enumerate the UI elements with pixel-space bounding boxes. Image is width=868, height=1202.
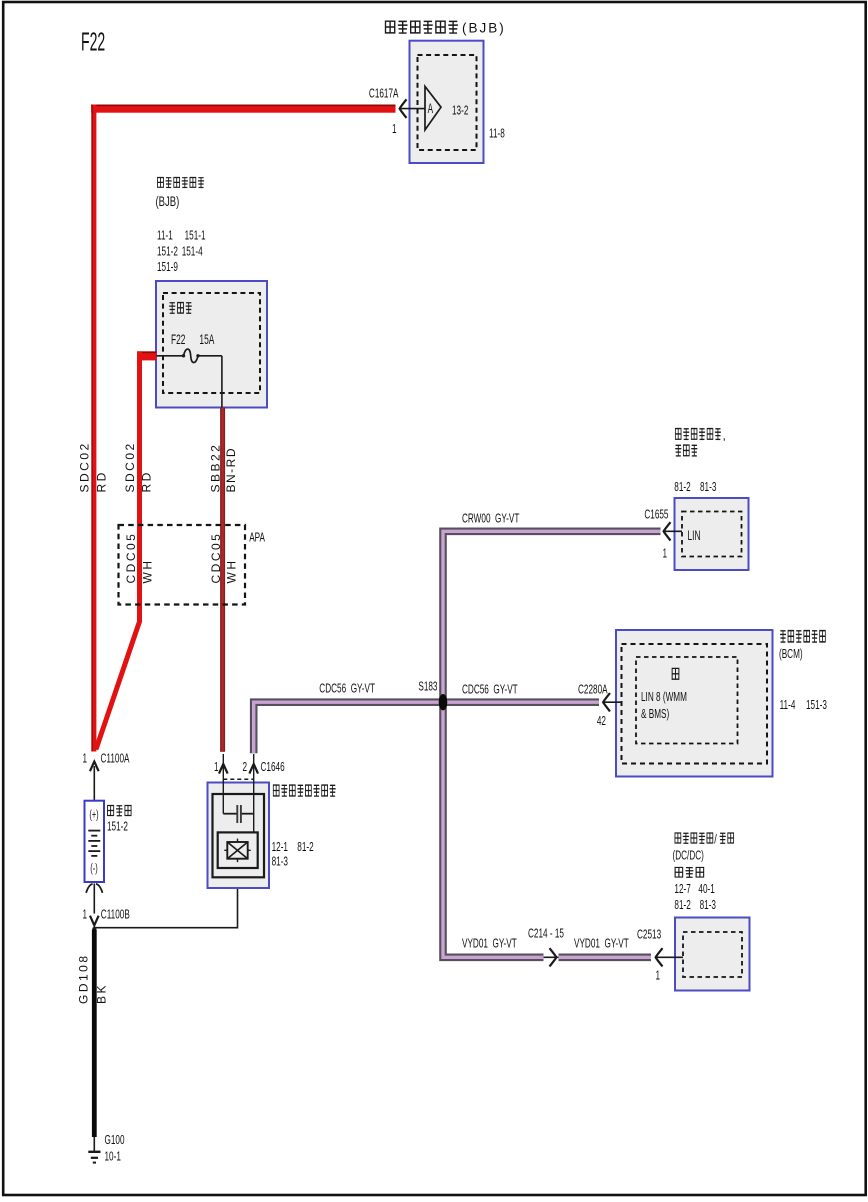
svg-text:12-1: 12-1 bbox=[272, 840, 288, 854]
svg-text:1: 1 bbox=[662, 547, 667, 561]
svg-text:10-1: 10-1 bbox=[105, 1150, 121, 1164]
svg-text:C2280A: C2280A bbox=[578, 683, 608, 697]
ground G100 10-1 bbox=[88, 1133, 124, 1164]
svg-text:81-3: 81-3 bbox=[700, 898, 716, 912]
svg-text:81-3: 81-3 bbox=[272, 855, 288, 869]
svg-text:CDC05: CDC05 bbox=[124, 532, 138, 584]
svg-text:CDC56 GY-VT: CDC56 GY-VT bbox=[319, 682, 375, 696]
svg-text:1: 1 bbox=[655, 969, 660, 983]
splice node S183 bbox=[418, 680, 447, 711]
svg-text:151-9: 151-9 bbox=[157, 260, 178, 274]
wire SDC02 RD : feed into fuse box (vertical run 2 + diagonal to C1100A) bbox=[96, 351, 157, 749]
connector C1100B pin 1 (battery -) bbox=[82, 908, 129, 932]
svg-text:SBB22: SBB22 bbox=[208, 443, 222, 493]
svg-text:A: A bbox=[428, 102, 434, 117]
svg-text:151-1: 151-1 bbox=[185, 229, 206, 243]
in-line connector C214 - 15 bbox=[528, 927, 564, 967]
module DC/DC converter 低电压直流/直流 换流器 bbox=[673, 833, 750, 991]
svg-text:CDC56 GY-VT: CDC56 GY-VT bbox=[462, 683, 518, 697]
svg-text:LIN 8 (WMM: LIN 8 (WMM bbox=[641, 690, 687, 704]
svg-text:12-7: 12-7 bbox=[674, 882, 690, 896]
svg-text:40-1: 40-1 bbox=[698, 882, 714, 896]
svg-text:F22: F22 bbox=[171, 333, 185, 348]
svg-text:81-2: 81-2 bbox=[674, 898, 690, 912]
svg-text:& BMS): & BMS) bbox=[641, 707, 669, 721]
battery clamp symbol bbox=[86, 884, 102, 893]
battery 蓄电池 151-2 bbox=[85, 801, 132, 914]
svg-text:42: 42 bbox=[597, 714, 606, 728]
svg-text:WH: WH bbox=[225, 559, 239, 584]
wire SBB22 BN-RD (fuse output) bbox=[220, 408, 225, 752]
connector box BJB top (蓄电池接线盒 BJB) bbox=[385, 21, 505, 164]
svg-text:RD: RD bbox=[94, 470, 108, 492]
wire SDC02 RD : vertical run 1 (to battery C1100A) bbox=[91, 105, 96, 752]
in-line circuit triangle A 13-2 bbox=[425, 86, 441, 129]
svg-text:C1617A: C1617A bbox=[369, 87, 399, 101]
wire VYD01 GY-VT right segment (C214 to C2513) bbox=[559, 953, 652, 961]
svg-text:C1100A: C1100A bbox=[101, 752, 131, 766]
wire SDC02 RD : horizontal run to C1617A bbox=[91, 105, 395, 113]
svg-text:,: , bbox=[723, 429, 726, 443]
svg-text:APA: APA bbox=[249, 531, 265, 545]
svg-text:13-2: 13-2 bbox=[452, 104, 468, 118]
svg-text:(BCM): (BCM) bbox=[779, 647, 803, 661]
svg-text:81-2: 81-2 bbox=[674, 480, 690, 494]
svg-text:11-1: 11-1 bbox=[157, 229, 173, 243]
svg-text:1: 1 bbox=[82, 752, 87, 766]
svg-text:C214 - 15: C214 - 15 bbox=[528, 927, 564, 941]
fuse box 常电源 bbox=[156, 281, 267, 408]
svg-text:(BJB): (BJB) bbox=[156, 193, 180, 209]
take-out APA (CDC05 WH) dashed box bbox=[119, 525, 266, 605]
svg-text:S183: S183 bbox=[418, 680, 437, 694]
connector C1655 pin 1 bbox=[644, 508, 682, 561]
svg-text:(BJB): (BJB) bbox=[462, 21, 506, 36]
svg-text:VYD01 GY-VT: VYD01 GY-VT bbox=[574, 937, 629, 951]
capacitor (shunt) inside sensor bbox=[223, 813, 236, 815]
battery monitoring sensor 蓄电池监控传感器 bbox=[208, 754, 336, 888]
svg-text:1: 1 bbox=[392, 122, 397, 136]
svg-text:F22: F22 bbox=[81, 28, 105, 57]
svg-text:GD108: GD108 bbox=[76, 953, 90, 1004]
label 微 (micro) bbox=[672, 668, 679, 679]
module BCM 车身控制模块 bbox=[616, 630, 827, 777]
svg-text:CDC05: CDC05 bbox=[209, 532, 223, 584]
svg-text:81-2: 81-2 bbox=[297, 840, 313, 854]
connector C1646 pins 1,2 bbox=[214, 760, 285, 779]
svg-text:C1100B: C1100B bbox=[101, 908, 130, 922]
connector C2513 pin 1 bbox=[637, 928, 683, 983]
sensor chip box with X bbox=[218, 832, 258, 868]
svg-text:1: 1 bbox=[82, 908, 87, 922]
wire (sensor ground branch) bbox=[94, 868, 237, 928]
wire CDC56 GY-VT left (C1646 pin2 to S183) bbox=[254, 702, 443, 753]
svg-text:BK: BK bbox=[95, 983, 109, 1004]
svg-text:11-8: 11-8 bbox=[489, 127, 505, 141]
svg-text:SDC02: SDC02 bbox=[123, 441, 137, 492]
svg-text:81-3: 81-3 bbox=[700, 480, 716, 494]
wire GD108 BK bbox=[92, 930, 97, 1138]
svg-text:C1655: C1655 bbox=[644, 508, 668, 522]
svg-text:1: 1 bbox=[214, 760, 219, 774]
module windshield wiper motor (风挡雨刮电机, 驾驶员) bbox=[674, 429, 748, 571]
svg-text:VYD01 GY-VT: VYD01 GY-VT bbox=[462, 937, 517, 951]
svg-text:(-): (-) bbox=[90, 862, 97, 875]
svg-text:CRW00 GY-VT: CRW00 GY-VT bbox=[462, 512, 520, 526]
svg-text:151-3: 151-3 bbox=[806, 698, 827, 712]
svg-text:LIN: LIN bbox=[688, 529, 701, 544]
svg-text:SDC02: SDC02 bbox=[77, 441, 91, 492]
svg-text:(DC/DC): (DC/DC) bbox=[673, 849, 704, 863]
svg-text:15A: 15A bbox=[199, 333, 214, 348]
svg-text:C1646: C1646 bbox=[261, 760, 285, 774]
sensor pin wires bbox=[222, 754, 224, 814]
svg-text:RD: RD bbox=[140, 470, 154, 492]
svg-text:G100: G100 bbox=[105, 1133, 125, 1147]
svg-text:C2513: C2513 bbox=[637, 928, 661, 942]
wire CDC56 GY-VT right (S183 to C2280A) bbox=[443, 698, 599, 706]
connector C1617A pin 1 bbox=[369, 87, 425, 137]
svg-text:2: 2 bbox=[242, 760, 247, 774]
connector box BJB fuse (蓄电池接线盒 BJB) title block bbox=[156, 177, 206, 274]
connector C2280A pin 42 bbox=[578, 683, 622, 729]
svg-text:11-4: 11-4 bbox=[780, 698, 796, 712]
svg-text:(+): (+) bbox=[89, 809, 98, 822]
svg-text:WH: WH bbox=[141, 559, 155, 584]
svg-text:151-2: 151-2 bbox=[157, 245, 178, 259]
wire CRW00 GY-VT (C1655 run + main vertical) bbox=[443, 531, 661, 957]
connector C1100A pin 1 (battery +) bbox=[82, 752, 130, 801]
svg-text:151-2: 151-2 bbox=[107, 820, 128, 834]
svg-text:BN-RD: BN-RD bbox=[224, 447, 238, 493]
svg-text:151-4: 151-4 bbox=[182, 245, 203, 259]
fuse F22 15A bbox=[156, 333, 222, 407]
